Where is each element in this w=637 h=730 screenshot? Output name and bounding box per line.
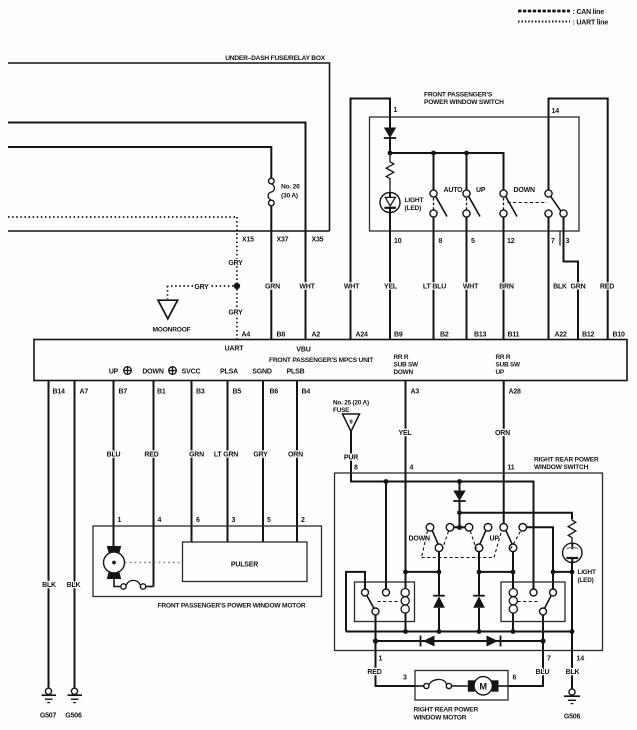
wire fuse No.25 to pin 8 (PUR)	[350, 432, 352, 474]
label BLU (RR)	[536, 669, 550, 676]
svg-text:5: 5	[267, 517, 271, 524]
pin B11 label	[508, 332, 520, 339]
label AUTO	[444, 187, 464, 194]
node bus diode D3	[437, 629, 442, 634]
svg-text:LT GRN: LT GRN	[214, 451, 238, 458]
label PLSB	[287, 369, 305, 376]
switch lockout pin14	[545, 117, 567, 217]
switch lock (RR, pin11)	[500, 524, 527, 552]
svg-text:WINDOW SWITCH: WINDOW SWITCH	[534, 464, 589, 471]
label MOONROOF	[153, 327, 191, 334]
svg-text:3: 3	[232, 517, 236, 524]
diode D5 (points left)	[421, 636, 435, 647]
svg-text:ORN: ORN	[495, 430, 510, 437]
front passenger's power window motor box	[93, 526, 322, 597]
svg-text:B4: B4	[302, 389, 311, 396]
svg-text:7: 7	[547, 656, 551, 663]
svg-text:B9: B9	[394, 332, 403, 339]
svg-text:14: 14	[577, 656, 585, 663]
wire pin 7 out	[542, 641, 544, 651]
label BLK (A7)	[67, 582, 81, 589]
RR motor pin 3 label	[403, 675, 407, 682]
wire pin 1 out	[375, 641, 377, 651]
label GRN	[265, 283, 280, 290]
svg-text:VBU: VBU	[296, 347, 310, 354]
pin X35 label	[312, 237, 324, 244]
label GRN (B12)	[571, 283, 586, 290]
right relay coil	[509, 582, 517, 632]
svg-text:M: M	[479, 681, 487, 691]
svg-text:POWER WINDOW SWITCH: POWER WINDOW SWITCH	[424, 99, 504, 106]
legend CAN line sample	[518, 9, 604, 16]
diode D3 (left, points up)	[433, 596, 445, 632]
pin B8 label	[277, 332, 286, 339]
ground G507	[40, 688, 57, 719]
wire B1 to motor pin 4 (RED)	[153, 381, 155, 587]
svg-text:B13: B13	[474, 332, 487, 339]
LED lamp (RR switch)	[563, 543, 582, 562]
motor M2 (RR)	[468, 677, 508, 695]
diode D1 (in FP switch)	[384, 117, 396, 153]
svg-text:WINDOW MOTOR: WINDOW MOTOR	[414, 715, 467, 722]
node GRY junction	[234, 283, 240, 289]
svg-text:PLSA: PLSA	[220, 369, 238, 376]
motor M1 (FP)	[104, 546, 125, 579]
label right rear power window motor	[414, 707, 479, 722]
svg-text:BLK: BLK	[566, 669, 580, 676]
label YEL (A3)	[398, 430, 412, 437]
node bus pin14	[570, 629, 575, 634]
svg-text:GRN: GRN	[265, 283, 280, 290]
label GRY on branch	[194, 284, 209, 291]
svg-text:BLU: BLU	[107, 451, 121, 458]
pin 5 label	[471, 238, 475, 245]
FP motor pin 2 label	[301, 517, 305, 524]
front passenger's power window switch box	[370, 117, 580, 231]
node UP link	[477, 570, 482, 575]
FP motor pin 6 label	[196, 517, 200, 524]
fuse No.25 triangle symbol	[343, 414, 360, 432]
wire pulser sense (dotted)	[125, 562, 182, 564]
svg-text:SGND: SGND	[252, 369, 272, 376]
resistor R2 (RR LED series)	[568, 513, 576, 544]
svg-text:RED: RED	[367, 669, 381, 676]
svg-text:No. 26: No. 26	[281, 184, 300, 191]
wire lock contact b to right relay contact	[527, 527, 553, 589]
svg-text:UP: UP	[496, 369, 505, 376]
wire bus to UP contact	[466, 153, 468, 190]
right rear power window switch title	[534, 457, 599, 472]
fuse No.25 (20 A) label	[333, 400, 369, 415]
FP motor pin 5 label	[267, 517, 271, 524]
label UP (RR)	[490, 536, 500, 543]
label YEL (B9)	[384, 283, 398, 290]
label GRY above junction	[228, 260, 243, 267]
wire pin 14 bracket to B10 (RED)	[549, 99, 608, 340]
pin A24 label	[356, 332, 369, 339]
label BLU	[107, 451, 121, 458]
svg-text:FRONT PASSENGER'S: FRONT PASSENGER'S	[424, 92, 493, 99]
pin B3 label	[196, 389, 205, 396]
wire pin 3 to B12 (GRN) with jog	[564, 217, 579, 339]
pin B10 label	[613, 332, 626, 339]
svg-text:FUSE: FUSE	[333, 407, 350, 414]
label RED (RR)	[367, 669, 381, 676]
svg-text:A22: A22	[555, 332, 568, 339]
wire right relay pole to pin 7	[542, 615, 544, 641]
svg-text:ORN: ORN	[288, 451, 303, 458]
svg-text:B1: B1	[157, 389, 166, 396]
label GRN (B3)	[189, 451, 204, 458]
svg-text:B14: B14	[53, 389, 66, 396]
contact circle right of common	[465, 524, 473, 532]
wire bus to AUTO contact	[433, 153, 435, 190]
svg-text:LIGHT: LIGHT	[578, 569, 596, 576]
svg-text:B3: B3	[196, 389, 205, 396]
pin B12 label	[582, 332, 595, 339]
svg-text:RIGHT REAR POWER: RIGHT REAR POWER	[534, 457, 599, 464]
pin B9 label	[394, 332, 403, 339]
pin 8 label	[439, 238, 443, 245]
svg-text:FRONT PASSENGER'S MPCS UNIT: FRONT PASSENGER'S MPCS UNIT	[269, 357, 373, 364]
wire diode output to LED resistor	[460, 513, 573, 519]
svg-text:BRN: BRN	[499, 283, 514, 290]
pin tick between 7 and 3	[559, 231, 561, 246]
label ORN (B4)	[288, 451, 303, 458]
svg-text:MOONROOF: MOONROOF	[153, 327, 191, 334]
svg-text:1: 1	[379, 656, 383, 663]
svg-text:3: 3	[403, 675, 407, 682]
svg-text:B11: B11	[508, 332, 520, 339]
wire B3 to pulser pin 6 (GRN)	[191, 381, 193, 543]
svg-text:LT BLU: LT BLU	[423, 283, 446, 290]
node switch common	[457, 525, 462, 530]
node lock-LED link	[551, 570, 556, 575]
UART wire (dotted) from left to X15 down to A4	[8, 217, 237, 340]
svg-text:SUB SW: SUB SW	[394, 362, 420, 369]
label BRN (B11)	[499, 283, 514, 290]
label RR R SUB SW UP	[496, 354, 522, 376]
svg-text:No. 25 (20 A): No. 25 (20 A)	[333, 400, 369, 407]
pin 7 label	[551, 238, 555, 245]
wire B6 to pulser pin 5 (GRY)	[262, 381, 264, 543]
label RED (B1)	[144, 451, 158, 458]
wire B5 to pulser pin 3 (LT GRN)	[227, 381, 229, 543]
label PULSER	[231, 562, 258, 569]
svg-text:4: 4	[410, 465, 414, 472]
wire UP output to diode anode	[478, 552, 480, 596]
LED lamp (FP switch)	[380, 193, 400, 213]
pin X15 label	[242, 237, 254, 244]
node LED junction	[570, 570, 575, 575]
wire bus to switches	[390, 153, 504, 190]
switch UP (RR)	[475, 524, 492, 552]
svg-text:BLU: BLU	[536, 669, 550, 676]
pin A4 label	[242, 332, 251, 339]
wire bus to X35 (inside under-dash box)	[8, 123, 306, 232]
svg-text:(30 A): (30 A)	[281, 193, 298, 200]
label DOWN (RR)	[409, 536, 431, 543]
label UP with arrow symbol	[109, 367, 131, 376]
RR switch pin 8 label	[354, 465, 358, 472]
wire upper bus	[346, 631, 572, 633]
svg-text:BLK: BLK	[553, 283, 567, 290]
pulser box	[183, 542, 308, 582]
pin A28 label	[509, 389, 522, 396]
wire PUR feed inside RR switch	[351, 473, 534, 589]
svg-text:WHT: WHT	[299, 283, 315, 290]
svg-text:10: 10	[394, 238, 402, 245]
svg-text:B5: B5	[233, 389, 242, 396]
svg-text:7: 7	[551, 238, 555, 245]
svg-text:RR R: RR R	[394, 354, 409, 361]
wire link DOWN to lockout switch (dashed)	[508, 202, 548, 204]
node lower bus pin 7	[540, 638, 545, 643]
moonroof connector triangle	[158, 300, 178, 319]
svg-text:SUB SW: SUB SW	[496, 362, 522, 369]
wire to left relay contact b	[385, 482, 387, 590]
svg-text:WHT: WHT	[463, 283, 479, 290]
svg-text:UP: UP	[490, 536, 500, 543]
pin A7 label	[80, 389, 89, 396]
pin B4 label	[302, 389, 311, 396]
label DOWN with arrow symbol	[142, 367, 176, 376]
label front passenger's power window motor	[158, 603, 306, 610]
svg-text:A7: A7	[80, 389, 89, 396]
diode D2 (RR switch feed)	[453, 482, 465, 513]
svg-text:: UART line: : UART line	[573, 20, 609, 27]
label WHT (B13)	[463, 283, 479, 290]
svg-text:RR R: RR R	[496, 354, 511, 361]
wire link YEL to DOWN output	[406, 571, 440, 573]
svg-text:X35: X35	[312, 237, 324, 244]
FP motor pin 4 label	[158, 517, 162, 524]
label LIGHT (LED) RR	[578, 569, 596, 584]
svg-text:DOWN: DOWN	[142, 369, 164, 376]
svg-text:8: 8	[354, 465, 358, 472]
svg-text:12: 12	[507, 238, 515, 245]
node YEL link	[403, 570, 408, 575]
svg-text:A2: A2	[312, 332, 321, 339]
left relay box	[355, 582, 415, 622]
node bus diode D4	[477, 629, 482, 634]
label PLSA	[220, 369, 238, 376]
fuse No.26 (30 A)	[268, 178, 300, 231]
svg-text:UART: UART	[225, 346, 245, 353]
label UART (inside MPCS)	[225, 346, 245, 353]
wire link lock contact to LED bottom	[553, 571, 572, 573]
svg-text:YEL: YEL	[384, 283, 398, 290]
wire LED bottom to pin 14	[571, 562, 573, 650]
svg-text:B10: B10	[613, 332, 626, 339]
svg-text:DOWN: DOWN	[394, 369, 414, 376]
node PUR-diode feed	[457, 479, 462, 484]
wire X37 to B8 (GRN)	[270, 231, 272, 340]
svg-text:A3: A3	[411, 389, 420, 396]
pin B5 label	[233, 389, 242, 396]
svg-text:A24: A24	[356, 332, 369, 339]
label LIGHT (LED)	[405, 197, 424, 212]
RR pin 7 label	[547, 656, 551, 663]
label RED (B10)	[600, 283, 614, 290]
pin A22 label	[555, 332, 568, 339]
svg-text:6: 6	[513, 675, 517, 682]
node bus junction at diode output	[388, 151, 393, 156]
node bus-AUTO	[431, 151, 436, 156]
label VBU (inside MPCS)	[296, 347, 310, 354]
wire YEL into coil	[405, 473, 407, 588]
RR switch pin 4 label	[410, 465, 414, 472]
svg-text:: CAN line: : CAN line	[573, 9, 605, 16]
pin B13 label	[474, 332, 487, 339]
wire motor brush loop	[114, 573, 154, 587]
label LT BLU (B2)	[423, 283, 446, 290]
svg-text:A28: A28	[509, 389, 522, 396]
wire A28 to RR switch pin 11 (ORN)	[503, 381, 505, 474]
svg-text:FRONT PASSENGER'S POWER WINDOW: FRONT PASSENGER'S POWER WINDOW MOTOR	[158, 603, 306, 610]
svg-text:4: 4	[158, 517, 162, 524]
ground G506 (left)	[65, 688, 82, 719]
FP motor pin 3 label	[232, 517, 236, 524]
label RR R SUB SW DOWN	[394, 354, 420, 376]
label PUR	[344, 455, 358, 462]
node DOWN-YEL link left	[437, 570, 442, 575]
svg-text:3: 3	[566, 238, 570, 245]
pin B2 label	[440, 332, 449, 339]
RR switch pin 11 label	[508, 465, 515, 472]
label BLK (RR)	[566, 669, 580, 676]
label WHT (A2)	[299, 283, 315, 290]
pin 14 label	[552, 108, 560, 115]
switch DOWN (RR)	[426, 524, 443, 552]
legend UART line sample	[518, 20, 608, 27]
svg-text:B8: B8	[277, 332, 286, 339]
svg-text:GRY: GRY	[194, 284, 209, 291]
svg-text:RED: RED	[600, 283, 614, 290]
node PUR-left relay contact	[384, 479, 389, 484]
wire GRY branch to moonroof (dotted)	[168, 286, 234, 299]
label UP	[476, 187, 486, 194]
svg-text:GRY: GRY	[253, 451, 268, 458]
wire pin 7 to RR motor pin 6 (BLU)	[508, 651, 543, 687]
diode D4 (right, points up)	[473, 596, 485, 632]
label DOWN	[514, 187, 536, 194]
svg-text:G507: G507	[40, 713, 57, 720]
label GRY (B6)	[253, 451, 268, 458]
pin B1 label	[157, 389, 166, 396]
front passenger's MPCS unit box	[34, 340, 627, 381]
svg-text:PUR: PUR	[344, 455, 358, 462]
FP motor pin 1 label	[118, 517, 122, 524]
brush contact circles and arc	[121, 580, 146, 589]
label SGND	[252, 369, 272, 376]
svg-text:RED: RED	[144, 451, 158, 458]
wire X35 to A2 (WHT)	[305, 231, 307, 340]
pin B6 label	[270, 389, 279, 396]
svg-text:B7: B7	[119, 389, 128, 396]
svg-text:14: 14	[552, 108, 560, 115]
label LT GRN	[214, 451, 238, 458]
right relay box	[501, 582, 565, 622]
svg-text:BLK: BLK	[42, 582, 56, 589]
svg-text:DOWN: DOWN	[409, 536, 431, 543]
wire pin 14 to G506 (BLK)	[571, 651, 573, 689]
svg-text:GRY: GRY	[228, 310, 243, 317]
wire B7 to motor pin 1 (BLU)	[113, 381, 115, 547]
pin B7 label	[119, 389, 128, 396]
wire B4 to pulser pin 2 (ORN)	[296, 381, 298, 543]
RR pin 14 label	[577, 656, 585, 663]
label FRONT PASSENGER'S MPCS UNIT	[269, 357, 373, 364]
svg-text:WHT: WHT	[344, 283, 360, 290]
svg-text:B12: B12	[582, 332, 595, 339]
svg-text:UNDER–DASH FUSE/RELAY BOX: UNDER–DASH FUSE/RELAY BOX	[225, 55, 326, 62]
pin 12 label	[507, 238, 515, 245]
wire pin 1 to RR motor pin 3 (RED)	[376, 651, 416, 687]
svg-text:2: 2	[301, 517, 305, 524]
dashed linkage trapezoid (RR switches)	[422, 531, 521, 558]
resistor R1 (LED series)	[386, 153, 394, 193]
svg-text:X15: X15	[242, 237, 254, 244]
switch UP	[463, 190, 480, 217]
wire B14 to G507 (BLK)	[48, 381, 50, 689]
pin 3 label	[566, 238, 570, 245]
wire bus to fuse No.26	[8, 147, 271, 178]
svg-text:1: 1	[118, 517, 122, 524]
wire pin 5 to B13 (WHT)	[466, 217, 468, 339]
svg-text:LIGHT: LIGHT	[405, 197, 424, 204]
RR motor pin 6 label	[513, 675, 517, 682]
wire lower bus pin1 to pin7	[376, 640, 544, 642]
wire link UP to right coil	[479, 571, 513, 573]
wire A7 to G506 (BLK)	[74, 381, 76, 689]
node diode output	[457, 510, 462, 515]
label SVCC	[182, 369, 201, 376]
svg-text:B2: B2	[440, 332, 449, 339]
under-dash fuse/relay box outline	[8, 63, 330, 231]
ground G506 (right)	[564, 689, 581, 721]
label BLK (A22)	[553, 283, 567, 290]
right rear power window motor box	[415, 671, 508, 701]
svg-text:6: 6	[196, 517, 200, 524]
switch DOWN	[500, 190, 517, 217]
wire left relay pole to pin 1	[375, 615, 377, 641]
pin B14 label	[53, 389, 66, 396]
svg-text:YEL: YEL	[398, 430, 412, 437]
wire common to contacts	[454, 526, 466, 528]
wire diode output to switch common	[459, 513, 461, 528]
wire pin 8 to B2 (LT BLU)	[433, 217, 435, 339]
wire LED to pin 10	[389, 213, 391, 232]
diode D6 (points right)	[487, 636, 501, 647]
svg-text:GRN: GRN	[571, 283, 586, 290]
svg-text:G506: G506	[564, 714, 581, 721]
node bus-UP	[464, 151, 469, 156]
right rear power window switch box	[335, 473, 603, 651]
node right coil link	[511, 570, 516, 575]
svg-text:GRY: GRY	[228, 260, 243, 267]
wire DOWN output to diode anode	[438, 552, 440, 596]
svg-text:11: 11	[508, 465, 515, 472]
svg-text:B6: B6	[270, 389, 279, 396]
contact circle left of common	[446, 524, 454, 532]
svg-text:8: 8	[439, 238, 443, 245]
wire left relay contact-a hook to bottom bus	[346, 572, 365, 632]
right relay switch	[518, 589, 557, 615]
wire A24 feed (WHT) with bracket to switch pin 1	[351, 99, 391, 340]
svg-text:RIGHT REAR POWER: RIGHT REAR POWER	[414, 707, 479, 714]
svg-text:A4: A4	[242, 332, 251, 339]
